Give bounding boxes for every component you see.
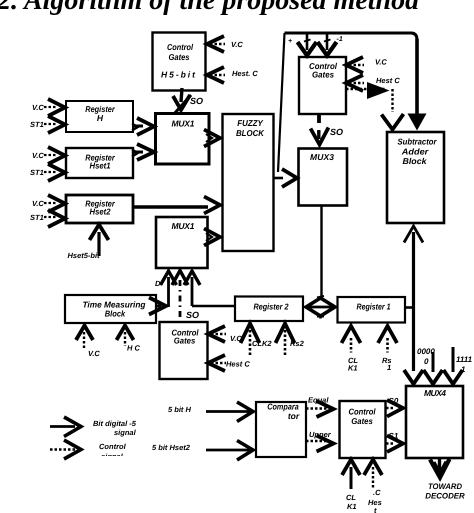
arrow SO from U2 into MUX3 top: [317, 130, 320, 139]
svg-text:+: +: [288, 38, 292, 45]
arrow time measuring block out: [156, 305, 161, 308]
svg-text:Gates: Gates: [169, 52, 190, 62]
arrow ST1 into register Hset1: [48, 164, 65, 181]
arrow constant 0 into MUX4 top: [424, 370, 443, 384]
control gates U3: [160, 322, 208, 379]
svg-text:1: 1: [387, 363, 391, 372]
arrow V.C into U3 right: [208, 326, 225, 342]
MUX1 lower: [156, 217, 208, 268]
MUX1 upper: [156, 114, 210, 165]
control gates U2: [299, 57, 346, 114]
wire: vertical into subtractor top: [415, 39, 419, 117]
wire MUX3 down to registers junction: [320, 206, 322, 299]
arrow V.C into register H: [48, 99, 65, 116]
arrow +1 into Control Gates U2 top: [298, 42, 317, 56]
control gates U1 (H5-bit): [153, 33, 206, 91]
svg-text:Hset5-bit: Hset5-bit: [68, 251, 101, 260]
svg-text:SO: SO: [186, 310, 199, 320]
arrow up into subtractor bottom: [404, 226, 423, 243]
wire FUZZY BLOCK out: [274, 177, 284, 180]
arrow Hest C into U3 right: [208, 355, 225, 371]
arrow 5 bit Hset2 into comparator: [206, 449, 250, 452]
svg-text:tor: tor: [288, 411, 300, 421]
arrow into subtractor adder top (filled): [408, 114, 427, 131]
svg-text:5 bit Hset2: 5 bit Hset2: [152, 443, 191, 452]
arrow Rs1 into register 1 bottom: [378, 326, 397, 343]
wire: stem of -1 arrow into Control Gates U2: [326, 33, 329, 50]
control gates U4: [340, 401, 386, 458]
register 1: [338, 297, 406, 323]
svg-text:V.C: V.C: [88, 349, 100, 358]
legend arrow: bit digital-5 signal: [50, 425, 75, 428]
svg-text:V.C: V.C: [32, 151, 44, 160]
arrow 5 bit H into comparator: [206, 410, 250, 413]
svg-text:H: H: [97, 113, 104, 123]
svg-text:ST1: ST1: [30, 120, 44, 129]
arrow constant 1 into MUX4 top: [444, 370, 463, 384]
time measuring block: [65, 295, 156, 323]
svg-text:Control: Control: [99, 442, 127, 451]
arrow MUX1 upper out into FUZZY BLOCK: [204, 130, 220, 147]
svg-text:V.C: V.C: [32, 103, 44, 112]
arrow V.C into register Hset2: [48, 195, 65, 212]
arrow input 2 into MUX1 lower (SO control, dash-dot): [172, 271, 188, 286]
legend arrow: control signal: [50, 448, 75, 451]
wire register 1 to vertical bus: [405, 306, 413, 309]
wire constant 1 input: [452, 347, 455, 372]
wire register Hset1 to MUX1: [133, 151, 143, 154]
wire register H to MUX1: [133, 125, 143, 128]
svg-text:Gates: Gates: [174, 336, 196, 346]
svg-text:Compara: Compara: [267, 402, 299, 412]
comparator: [256, 402, 306, 457]
arrow input 3 into MUX1 lower (from register 2): [184, 271, 200, 285]
arrow Hest.C into U1 right: [207, 67, 224, 83]
wire constant 0 input: [432, 352, 435, 372]
arrow Rs2 into register 2 bottom: [276, 324, 295, 344]
svg-text:SO: SO: [330, 127, 343, 137]
svg-text:D: D: [155, 279, 161, 288]
wire register Hset2 to FUZZY BLOCK: [133, 205, 208, 208]
svg-text:Hest. C: Hest. C: [232, 69, 258, 78]
arrow Upper from comparator to control gates U4: [306, 440, 327, 443]
svg-text:K1: K1: [348, 364, 358, 373]
svg-text:Block: Block: [403, 156, 428, 166]
wire: stem of +1 arrow into Control Gates U2: [306, 33, 309, 50]
arrow ST1 into register H: [48, 116, 65, 133]
svg-text:Hest C: Hest C: [226, 360, 250, 369]
register Hset2: [66, 195, 133, 223]
svg-text:Hset2: Hset2: [90, 207, 111, 217]
svg-text:MUX1: MUX1: [172, 119, 195, 129]
register H: [66, 101, 133, 132]
arrow register H out into MUX1: [137, 118, 154, 135]
arrow bus input into MUX4 top: [404, 370, 423, 384]
arrow into MUX3 left: [282, 169, 297, 187]
register 2: [235, 297, 303, 322]
svg-text:TOWARD: TOWARD: [428, 482, 462, 491]
svg-text:MUX3: MUX3: [310, 152, 334, 162]
arrow ST1 into register Hset2: [48, 210, 65, 227]
svg-text:Control: Control: [167, 42, 194, 52]
arrow V.C into time measuring block bottom: [76, 326, 93, 341]
MUX3: [299, 149, 348, 206]
junction diamond between register 2 and register 1: [306, 298, 335, 316]
arrow Hset5-bit into register Hset2 bottom: [90, 225, 109, 241]
subtractor adder block: [387, 132, 444, 223]
wire: diagonal from top bus down to MUX3 input junction: [278, 33, 285, 172]
svg-text:Hest C: Hest C: [376, 76, 400, 85]
svg-text:H5-bit: H5-bit: [161, 70, 196, 80]
arrow on U2 out wire (filled): [367, 82, 390, 99]
arrow CL K1 into register 1 bottom: [342, 326, 361, 343]
arrow CLK2 into register 2 bottom: [241, 324, 260, 344]
svg-text:V.C: V.C: [231, 40, 243, 49]
svg-text:Bit digital -5: Bit digital -5: [93, 419, 137, 428]
arrow Equal from comparator to control gates U4: [306, 407, 327, 410]
svg-text:signal: signal: [114, 428, 137, 437]
arrow into subtractor top (open): [382, 114, 404, 130]
arrow Hset2 out into FUZZY BLOCK: [204, 197, 220, 214]
svg-text:V.C: V.C: [375, 58, 387, 67]
svg-text:Adder: Adder: [401, 147, 429, 157]
svg-text:SO: SO: [190, 96, 203, 106]
svg-text:BLOCK: BLOCK: [236, 128, 265, 138]
arrow H.C into time measuring block bottom: [117, 326, 134, 341]
svg-text:Rs2: Rs2: [290, 339, 305, 348]
arrow input 1 into MUX1 lower (from time measuring block): [161, 271, 177, 285]
svg-text:Gates: Gates: [312, 70, 334, 80]
svg-text:Subtractor: Subtractor: [398, 137, 438, 147]
svg-text:signal: signal: [101, 452, 124, 461]
svg-text:Register 2: Register 2: [254, 302, 289, 312]
svg-text:Block: Block: [105, 309, 127, 319]
svg-text:Gates: Gates: [351, 416, 373, 426]
svg-text:.C: .C: [373, 488, 381, 497]
wire down to subtractor (dotted): [391, 89, 393, 112]
svg-text:K1: K1: [347, 502, 357, 511]
svg-text:t: t: [374, 506, 377, 513]
arrow V.C into register Hset1: [48, 147, 65, 164]
arrow Hest C into U2 right: [346, 75, 363, 91]
arrow V.C Hest C into U4 bottom: [364, 460, 382, 476]
svg-text:DECODER: DECODER: [425, 492, 465, 501]
wire register 2 to MUX1 lower riser: [192, 305, 235, 308]
arrow CL K1 into U4 bottom: [342, 460, 360, 476]
arrow -1 into Control Gates U2 top: [318, 42, 337, 56]
arrow V.C into U1 right: [207, 36, 224, 52]
svg-text:2. Algorithm of the proposed m: 2. Algorithm of the proposed method: [0, 0, 420, 16]
arrow MUX4 output toward decoder: [438, 458, 441, 470]
wire U2 out (dotted) to subtractor: [346, 88, 385, 90]
svg-text:MUX1: MUX1: [172, 221, 195, 231]
wire SO from U1 to MUX1: [181, 88, 182, 102]
svg-text:0: 0: [424, 357, 429, 366]
wire vertical bus from subtractor down to MUX4: [412, 232, 415, 371]
svg-text:5 bit H: 5 bit H: [168, 405, 192, 414]
arrow MUX1 lower out into FUZZY BLOCK: [204, 229, 220, 246]
arrow SO into MUX1 top: [173, 95, 190, 110]
svg-text:Register 1: Register 1: [357, 302, 391, 312]
svg-text:V.C: V.C: [32, 199, 44, 208]
MUX4: [406, 386, 463, 458]
svg-text:FUZZY: FUZZY: [237, 118, 264, 128]
svg-text:-1: -1: [337, 36, 343, 43]
register Hset1: [66, 148, 133, 178]
svg-text:H C: H C: [127, 344, 141, 353]
svg-text:ST1: ST1: [30, 213, 44, 222]
arrow S1 from U4 to MUX4: [386, 442, 395, 444]
svg-text:ST1: ST1: [30, 168, 44, 177]
svg-text:MUX4: MUX4: [424, 388, 446, 398]
svg-text:Hset1: Hset1: [90, 161, 111, 171]
wire MUX1 upper out: [206, 134, 212, 142]
wire: top horizontal bus: [285, 33, 418, 40]
arrow S0 from U4 to MUX4: [386, 407, 395, 409]
arrow V.C into U2 right: [346, 57, 363, 73]
svg-text:CL: CL: [346, 493, 356, 502]
arrow register Hset1 out into MUX1: [137, 144, 154, 160]
wire MUX1 lower out: [206, 233, 212, 241]
wire U2 bottom stub: [317, 114, 321, 123]
FUZZY BLOCK: [223, 114, 274, 251]
svg-text:1111: 1111: [456, 355, 473, 364]
svg-text:Control: Control: [349, 407, 377, 417]
svg-text:CLK2: CLK2: [252, 339, 272, 348]
